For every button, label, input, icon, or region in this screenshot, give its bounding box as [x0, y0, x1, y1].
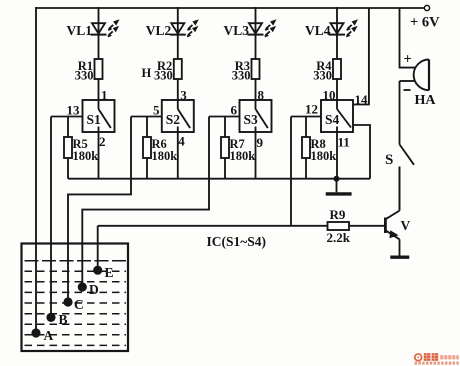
wire S1 pin2 to ground rail — [98, 132, 100, 179]
wire VL2 anode drop — [177, 8, 179, 23]
svg-text:C: C — [74, 297, 84, 312]
wire S4 pin11 to ground rail — [336, 132, 338, 179]
switch S — [400, 81, 415, 211]
svg-text:S1: S1 — [87, 112, 102, 127]
svg-text:B: B — [59, 312, 68, 327]
water surface lines — [25, 261, 127, 346]
svg-text:1: 1 — [101, 88, 108, 103]
svg-text:5: 5 — [153, 103, 160, 118]
wire VL1 anode drop — [98, 8, 100, 23]
node junction pin11/ground — [334, 176, 340, 182]
svg-text:3: 3 — [180, 88, 187, 103]
svg-text:330: 330 — [313, 69, 332, 83]
resistor R6 — [143, 117, 151, 179]
switch S4 (IC cell) — [321, 100, 353, 132]
node +6V terminal — [424, 5, 429, 10]
svg-text:IC(S1~S4): IC(S1~S4) — [207, 234, 267, 249]
svg-text:330: 330 — [232, 69, 251, 83]
node electrode D — [78, 282, 87, 291]
wire S3 pin9 to ground rail — [255, 132, 257, 179]
resistor R1 — [95, 35, 103, 100]
svg-text:180k: 180k — [152, 149, 178, 163]
svg-text:+ 6V: + 6V — [410, 15, 440, 31]
node electrode C — [63, 297, 72, 306]
node electrode E — [93, 266, 102, 275]
svg-text:S4: S4 — [325, 112, 340, 127]
resistor R3 — [252, 35, 260, 100]
wire electrode B to pin13 — [50, 117, 52, 314]
svg-text:S2: S2 — [166, 112, 181, 127]
transistor V — [385, 167, 399, 256]
label minus — [404, 89, 411, 91]
node electrode A — [31, 328, 40, 337]
wire S1 control pin13 — [51, 116, 83, 118]
water tank — [22, 244, 129, 352]
svg-text:+: + — [404, 52, 412, 68]
switch S3 (IC cell) — [240, 100, 272, 132]
svg-text:11: 11 — [338, 135, 350, 150]
switch S2 (IC cell) — [162, 100, 194, 132]
svg-text:R9: R9 — [330, 207, 346, 222]
wire S4 pin14 to +6V — [353, 8, 369, 105]
wire S4 pole to ground junction — [353, 125, 370, 179]
switch S1 (IC cell) — [83, 100, 115, 132]
wire buzzer to switch — [400, 80, 416, 82]
wire ground bus rail — [68, 178, 370, 180]
svg-text:H: H — [142, 66, 152, 80]
svg-text:180k: 180k — [73, 149, 99, 163]
wire electrode E vertical — [97, 226, 99, 266]
svg-text:9: 9 — [257, 135, 264, 150]
svg-text:VL2: VL2 — [146, 23, 172, 38]
svg-text:E: E — [105, 265, 114, 280]
wire electrode D to pin6 — [82, 117, 209, 284]
wire electrode E to pin12 and R9 — [290, 117, 292, 226]
resistor R7 — [221, 117, 229, 179]
svg-text:D: D — [89, 282, 99, 297]
wire +6V top rail — [36, 7, 424, 9]
wire E node horizontal run — [98, 225, 328, 227]
svg-text:2.2k: 2.2k — [327, 230, 351, 245]
svg-text:330: 330 — [75, 69, 94, 83]
resistor R5 — [64, 117, 72, 179]
svg-text:VL3: VL3 — [223, 23, 249, 38]
LED VL4 — [329, 19, 358, 36]
svg-text:V: V — [401, 218, 411, 233]
svg-text:6: 6 — [231, 103, 238, 118]
LED VL3 — [248, 19, 277, 36]
wire S4 control pin12 — [291, 116, 321, 118]
ground symbol under S4 — [326, 179, 352, 194]
wire VL4 anode drop — [336, 8, 338, 23]
svg-text:A: A — [44, 328, 54, 343]
svg-text:S3: S3 — [244, 112, 259, 127]
watermark logo — [415, 353, 459, 364]
svg-text:VL4: VL4 — [305, 23, 331, 38]
resistor R8 — [302, 117, 310, 179]
svg-text:8: 8 — [258, 88, 265, 103]
svg-text:VL1: VL1 — [66, 23, 92, 38]
LED VL2 — [170, 19, 199, 36]
svg-text:180k: 180k — [311, 149, 337, 163]
svg-text:12: 12 — [305, 102, 318, 117]
LED VL1 — [91, 19, 120, 36]
wire S2 control pin5 — [131, 116, 162, 118]
svg-text:HA: HA — [415, 93, 437, 108]
wire left border / electrode A feed — [35, 8, 37, 329]
svg-text:10: 10 — [323, 88, 336, 103]
wire S3 control pin6 — [209, 116, 240, 118]
svg-text:4: 4 — [178, 134, 185, 149]
svg-text:13: 13 — [67, 103, 81, 118]
wire S2 pin4 to ground rail — [177, 132, 179, 179]
svg-text:330: 330 — [154, 69, 173, 83]
svg-text:14: 14 — [355, 92, 369, 107]
wire electrode C to pin5 — [68, 117, 131, 299]
node electrode B — [46, 313, 55, 322]
resistor R9 — [328, 222, 385, 230]
resistor R2 — [174, 35, 182, 100]
buzzer HA — [414, 60, 429, 91]
svg-text:180k: 180k — [230, 149, 256, 163]
resistor R4 — [333, 35, 341, 100]
wire VL3 anode drop — [255, 8, 257, 23]
svg-text:S: S — [385, 152, 393, 168]
ground symbol emitter — [390, 256, 409, 259]
svg-text:2: 2 — [99, 134, 106, 149]
wire +6V to buzzer — [400, 8, 416, 68]
